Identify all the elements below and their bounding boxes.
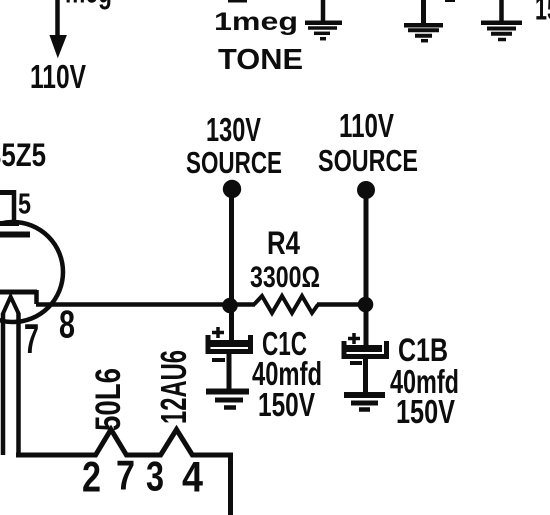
svg-text:TONE: TONE <box>218 44 303 76</box>
svg-text:130V: 130V <box>206 111 261 148</box>
svg-text:7: 7 <box>24 315 39 362</box>
svg-text:7: 7 <box>116 452 135 499</box>
svg-text:5: 5 <box>18 189 31 221</box>
svg-text:SOURCE: SOURCE <box>318 143 418 178</box>
svg-text:SOURCE: SOURCE <box>186 145 282 180</box>
svg-text:150V: 150V <box>258 386 315 423</box>
svg-text:110V: 110V <box>30 58 86 95</box>
svg-text:50L6: 50L6 <box>89 368 128 431</box>
svg-text:110V: 110V <box>339 107 394 144</box>
svg-text:8: 8 <box>59 304 75 347</box>
svg-text:35Z5: 35Z5 <box>0 137 46 173</box>
svg-text:150V: 150V <box>396 393 455 430</box>
svg-text:3300Ω: 3300Ω <box>250 261 320 294</box>
svg-text:meg: meg <box>65 0 112 10</box>
svg-text:12AU6: 12AU6 <box>153 350 194 424</box>
svg-text:1meg: 1meg <box>214 8 298 36</box>
svg-text:4: 4 <box>182 454 203 502</box>
svg-text:3: 3 <box>146 453 164 500</box>
svg-text:2: 2 <box>82 454 101 502</box>
svg-text:15: 15 <box>535 0 550 27</box>
svg-text:R4: R4 <box>267 225 300 261</box>
